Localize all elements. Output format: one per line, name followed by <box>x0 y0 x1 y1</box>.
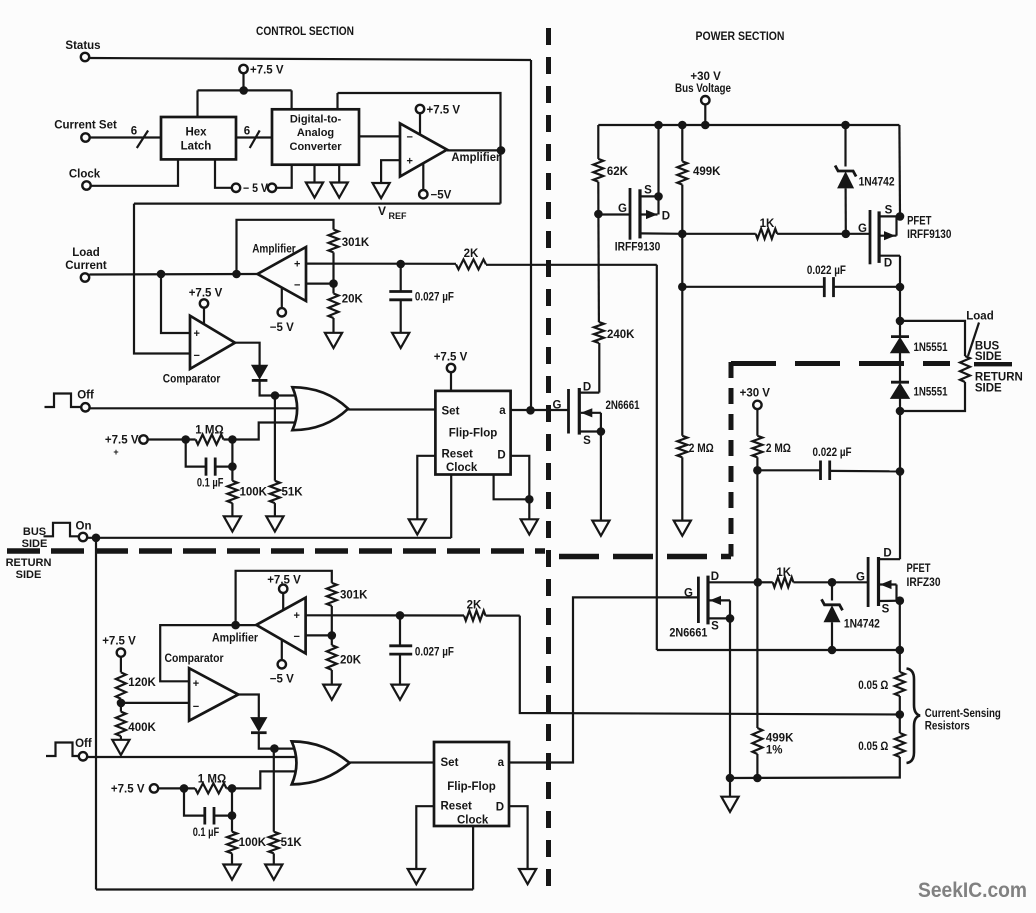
svg-text:Digital-to-: Digital-to- <box>290 114 342 126</box>
wire feedback top to amp1 output <box>338 93 501 150</box>
wire hex latch -5V stub <box>215 159 232 187</box>
svg-text:0.1 µF: 0.1 µF <box>193 827 220 839</box>
svg-text:POWER SECTION: POWER SECTION <box>696 29 785 43</box>
wire On line <box>87 537 451 539</box>
svg-text:120K: 120K <box>128 677 156 689</box>
wire 1M2 to OR2 bottom input <box>227 771 297 788</box>
wire comparator1 output <box>235 343 260 366</box>
wire Q5 source lead <box>879 600 900 602</box>
comparator U8 lower <box>189 668 238 721</box>
ground Q4 source <box>721 797 738 812</box>
wire +7.5V FF1 stub <box>450 372 452 391</box>
lower feedback box wire <box>236 571 332 625</box>
wire FF2 a to gate riser <box>509 597 698 762</box>
diode 1N5551 lower <box>891 381 909 384</box>
svg-text:1K: 1K <box>776 567 791 579</box>
wire to Q5 gate <box>832 581 868 583</box>
node 0.022 line left <box>678 283 687 292</box>
wire OR1 top input <box>275 394 297 396</box>
wire Q1 source to ground <box>600 432 602 521</box>
wire Q1 240K vertical <box>598 343 600 393</box>
svg-text:PFET: PFET <box>907 216 931 228</box>
svg-text:D: D <box>496 802 504 814</box>
svg-text:Off: Off <box>75 738 92 750</box>
dashed inner boundary vertical <box>729 362 734 557</box>
node Q3 source <box>896 212 905 221</box>
svg-text:1N4742: 1N4742 <box>844 619 880 631</box>
wire OR2 top input <box>274 747 296 749</box>
resistor 2Mohm left <box>681 287 683 436</box>
wire amp2 minus input <box>306 283 334 285</box>
svg-text:On: On <box>76 521 92 533</box>
wire Q2 drain lead <box>640 232 682 235</box>
pulse symbol On <box>44 523 80 537</box>
svg-text:Set: Set <box>441 757 459 769</box>
svg-text:SIDE: SIDE <box>22 538 48 550</box>
svg-text:1%: 1% <box>766 745 783 757</box>
dashed divider horizontal BUS/RETURN left <box>7 548 545 554</box>
node 100K2 top <box>228 811 237 820</box>
svg-text:SIDE: SIDE <box>975 383 1002 395</box>
wire Q3 drain down <box>899 256 901 321</box>
node Q4 source <box>726 614 735 623</box>
wire Q5 source to sense node <box>899 601 901 650</box>
wire 1M right to 100K <box>231 440 233 481</box>
wire to Q3 gate <box>846 233 870 235</box>
flip-flop U9 <box>434 742 509 826</box>
wire 0.05 bottom <box>730 757 900 778</box>
wire 1K2 to zener node <box>793 581 832 583</box>
op-amp U4 Amplifier (left-pointing) <box>258 247 307 301</box>
wire 499K1pc to bottom <box>756 754 758 778</box>
OR gate 2 <box>292 741 350 784</box>
svg-text:0.05 Ω: 0.05 Ω <box>858 741 888 753</box>
wire 100K to ground <box>231 503 233 516</box>
wire +7.5V to bus <box>242 73 244 90</box>
svg-text:1N5551: 1N5551 <box>914 387 948 399</box>
svg-text:+: + <box>294 259 300 271</box>
terminal -5V amp3 <box>278 660 286 668</box>
svg-text:Reset: Reset <box>442 448 473 460</box>
node drain 1K <box>678 230 687 239</box>
svg-text:51K: 51K <box>282 487 304 499</box>
wire +7.5V comparator1 stub <box>203 308 205 325</box>
resistor 51K upper <box>270 481 280 503</box>
svg-text:Flip-Flop: Flip-Flop <box>449 428 498 440</box>
resistor 51K lower <box>269 832 279 854</box>
DAC box U2 Digital-to-Analog Converter <box>272 109 359 164</box>
wire Q4 body down to source <box>729 600 731 618</box>
svg-text:Clock: Clock <box>69 169 101 181</box>
resistor 499K <box>681 125 683 161</box>
svg-text:Off: Off <box>77 390 94 402</box>
wire to 1M <box>148 438 196 440</box>
svg-text:G: G <box>856 572 865 584</box>
transistor Q4 channel plate <box>706 576 709 625</box>
svg-text:Comparator: Comparator <box>163 374 221 386</box>
dashed divider horizontal power section <box>559 554 731 560</box>
node FF1 D loop <box>525 495 534 504</box>
node FF1 a / status <box>526 406 535 415</box>
wire gate lead Q2 <box>598 213 630 215</box>
svg-text:Current: Current <box>65 260 107 272</box>
svg-text:0.022 µF: 0.022 µF <box>813 447 852 459</box>
svg-text:1N4742: 1N4742 <box>859 177 895 189</box>
wire 1M to OR bottom input <box>224 423 298 440</box>
svg-text:G: G <box>684 587 693 599</box>
svg-text:PFET: PFET <box>907 563 931 575</box>
node zener2 bottom <box>828 646 837 655</box>
svg-text:Bus Voltage: Bus Voltage <box>675 83 731 95</box>
wire 2M left branch <box>681 234 683 287</box>
node +7.5V bus junction <box>239 86 248 95</box>
svg-text:SIDE: SIDE <box>16 569 42 581</box>
Q5 body arrow lead <box>880 583 897 585</box>
wire FF1 a output to FET gate <box>511 409 569 411</box>
svg-text:100K: 100K <box>239 837 267 849</box>
wire bus left corner down <box>597 125 599 159</box>
node bus S branch <box>654 121 663 130</box>
wire down to IRFZ30 drain <box>899 471 901 559</box>
svg-text:301K: 301K <box>342 237 370 249</box>
wire amp3 plus input line <box>306 614 464 616</box>
svg-text:BUS: BUS <box>23 526 46 538</box>
resistor 100K lower <box>227 832 237 854</box>
wire Q4 source to bottom <box>729 618 731 778</box>
svg-text:−5V: −5V <box>431 190 452 202</box>
wire zener to 1K line <box>844 188 846 233</box>
svg-text:62K: 62K <box>607 166 629 178</box>
svg-text:−: − <box>294 631 300 643</box>
wire bus to Q2 source <box>657 125 659 196</box>
ground 51K lower <box>265 865 282 880</box>
wire VREF down to comparator minus <box>134 204 190 354</box>
wire divider to comparator2 minus <box>121 702 189 704</box>
wire to 0.05 first <box>899 650 901 672</box>
svg-text:+7.5 V: +7.5 V <box>105 435 139 447</box>
resistor 20K lower <box>331 635 333 645</box>
wire Q3 source lead <box>879 215 900 217</box>
wire 62K to gate node <box>597 182 599 214</box>
terminal +30V bus <box>701 96 709 104</box>
flip-flop U6 <box>435 391 510 475</box>
svg-text:G: G <box>618 203 627 215</box>
node 0.022#2 left <box>753 466 762 475</box>
wire +7.5V bus <box>198 89 292 91</box>
svg-text:S: S <box>885 205 893 217</box>
ground 20K upper <box>325 333 342 348</box>
capacitor 0.022uF upper wire <box>682 286 824 288</box>
terminal -5V amp1 <box>419 190 427 198</box>
resistor 20K upper <box>332 284 334 294</box>
svg-text:−: − <box>193 701 199 713</box>
svg-text:+7.5 V: +7.5 V <box>250 65 284 77</box>
svg-text:Amplifier: Amplifier <box>451 152 501 164</box>
Q2 body arrow lead <box>640 213 658 215</box>
svg-text:S: S <box>644 185 652 197</box>
wire bus to Hex Latch <box>196 90 198 117</box>
wire 51K2 branch <box>273 749 275 832</box>
wire 1N5551 to node <box>899 398 901 411</box>
wire 20K to ground <box>332 318 334 333</box>
wire Q1 drain lead <box>579 392 599 394</box>
svg-text:51K: 51K <box>281 837 303 849</box>
resistor 400K <box>116 712 126 736</box>
wire +30V bus rail <box>598 124 899 126</box>
transistor Q1 channel plate <box>578 388 581 435</box>
node 1M left <box>181 435 190 444</box>
node bottom right <box>753 774 762 783</box>
wire diode2 to OR2 node <box>259 733 275 749</box>
svg-text:Analog: Analog <box>297 127 334 139</box>
wire 20K2 to ground <box>331 670 333 685</box>
node Q5 source <box>896 596 905 605</box>
node OR2 top input <box>270 744 279 753</box>
wire feedback box amp2 <box>237 220 334 274</box>
svg-text:1K: 1K <box>760 218 775 230</box>
svg-text:S: S <box>882 604 890 616</box>
svg-text:−: − <box>407 132 413 144</box>
svg-text:D: D <box>883 548 891 560</box>
node load bottom <box>896 407 905 416</box>
resistor 62K <box>593 159 603 182</box>
wire OR1 output to FF1 Set <box>348 408 435 410</box>
svg-text:1 MΩ: 1 MΩ <box>195 425 223 437</box>
wire 51K to ground <box>274 503 276 516</box>
svg-text:D: D <box>711 571 719 583</box>
diode comparator1 <box>252 365 268 379</box>
load pointer line <box>968 323 979 357</box>
node load current branch <box>157 270 166 279</box>
wire to mid node <box>899 696 901 715</box>
resistor 1 Mohm lower <box>195 783 226 793</box>
svg-text:−5 V: −5 V <box>270 322 294 334</box>
node 0.022#2 right <box>896 467 905 476</box>
svg-text:−5 V: −5 V <box>270 674 294 686</box>
svg-text:+30 V: +30 V <box>690 71 721 83</box>
diode comparator2 <box>251 718 267 732</box>
transistor Q1 2N6661 gate plate <box>567 389 570 434</box>
zener 1N4742 lower <box>831 582 833 600</box>
svg-text:− 5 V: − 5 V <box>243 183 268 195</box>
svg-text:499K: 499K <box>693 166 721 178</box>
node zener bottom / gate Q3 <box>842 230 851 239</box>
svg-text:0.022 µF: 0.022 µF <box>807 265 846 277</box>
wire FF1 D to ground <box>511 456 530 520</box>
svg-text:400K: 400K <box>128 722 156 734</box>
wire Q4 source lead <box>708 617 730 619</box>
wire DAC feedback stub <box>336 93 338 109</box>
svg-text:Resistors: Resistors <box>925 721 970 733</box>
svg-text:−: − <box>294 280 300 292</box>
wire amp3 output to feedback <box>236 624 257 626</box>
svg-text:Amplifier: Amplifier <box>252 243 296 255</box>
svg-text:+7.5 V: +7.5 V <box>102 636 136 648</box>
wire OR2 output to FF2 Set <box>350 761 434 763</box>
svg-text:IRFF9130: IRFF9130 <box>907 229 951 241</box>
ground 0.027 lower <box>391 685 408 700</box>
capacitor 0.1uF upper <box>186 440 206 467</box>
ground 100K upper <box>224 516 241 531</box>
node 1M2 left <box>180 784 189 793</box>
svg-text:+: + <box>407 156 413 168</box>
node amp2 minus <box>329 279 338 288</box>
svg-text:+: + <box>113 447 118 457</box>
wire status to corner <box>89 58 531 60</box>
transistor Q2 channel plate <box>638 189 641 238</box>
ground DAC 2 <box>331 183 348 198</box>
ground FF1 reset <box>409 519 426 534</box>
wire current sense line to control <box>520 616 900 715</box>
resistor 0.05 ohm lower <box>899 715 901 734</box>
wire Q2 source lead <box>640 195 659 197</box>
transistor Q3 channel plate <box>877 211 880 263</box>
svg-text:Status: Status <box>65 40 100 52</box>
svg-text:+7.5 V: +7.5 V <box>111 783 145 795</box>
svg-text:Reset: Reset <box>441 801 472 813</box>
svg-text:Load: Load <box>966 311 993 323</box>
wire FF1 clock to On line <box>450 475 452 539</box>
wire Q1 body to source <box>600 413 602 432</box>
svg-text:RETURN: RETURN <box>6 557 52 569</box>
terminal -5V amp2 <box>278 308 286 316</box>
transistor Q4 2N6661 gate plate <box>697 577 700 623</box>
wire 2M2 to node <box>756 457 758 470</box>
node load top <box>896 317 905 326</box>
resistor 240K <box>594 322 604 343</box>
resistor 1 Mohm upper <box>196 435 224 445</box>
wire amp1 plus to ground <box>381 160 400 183</box>
svg-text:2K: 2K <box>467 600 482 612</box>
wire Off2 line <box>87 756 298 758</box>
node sense mid <box>896 710 905 719</box>
ground 2M left <box>674 521 691 536</box>
node amp3 minus <box>328 631 337 640</box>
wire +30 branch down <box>756 470 758 582</box>
node 0.027#2 <box>396 611 405 620</box>
wire status vertical to FF1 a node <box>530 60 532 410</box>
svg-text:301K: 301K <box>340 590 368 602</box>
svg-text:+7.5 V: +7.5 V <box>189 288 223 300</box>
wire amp3 minus input <box>306 634 332 636</box>
svg-text:+7.5 V: +7.5 V <box>427 105 461 117</box>
ground 0.027uF upper <box>392 333 409 348</box>
ground FF2 reset <box>408 869 425 884</box>
wire 2K2 to sense riser <box>486 614 520 616</box>
node bus zener <box>841 121 850 130</box>
wire to 1M2 <box>158 787 195 789</box>
ground 400K <box>112 740 129 755</box>
wire bus to DAC <box>291 90 293 109</box>
node 0.027uF upper <box>396 260 405 269</box>
svg-text:Load: Load <box>72 247 99 259</box>
capacitor 0.027uF upper <box>400 264 402 292</box>
node sense top right <box>896 646 905 655</box>
node 120K 400K <box>117 699 126 708</box>
terminal +30V 2 <box>753 401 761 409</box>
node 62K gate <box>594 210 603 219</box>
resistor 301K upper <box>329 230 339 253</box>
wire FF2 clock vertical <box>472 826 474 890</box>
svg-text:2K: 2K <box>464 248 479 260</box>
ground stub DAC 2 <box>338 165 340 183</box>
node Q2 source <box>654 192 663 201</box>
wire -5V to DAC <box>276 165 291 188</box>
svg-text:S: S <box>583 435 591 447</box>
svg-text:−: − <box>194 350 200 362</box>
wire branch to comparator plus <box>161 274 190 333</box>
zener 1N4742 upper <box>844 125 846 167</box>
svg-text:6: 6 <box>244 126 250 138</box>
wire -5V amp2 stub <box>281 288 283 309</box>
wire On return vertical <box>95 538 97 890</box>
Q3 body arrow lead <box>879 235 896 237</box>
svg-text:+: + <box>193 678 199 690</box>
node amp1 output VREF <box>497 146 506 155</box>
wire between 1N5551s <box>899 353 901 382</box>
wire sense line down power <box>656 265 658 650</box>
svg-text:100K: 100K <box>240 487 268 499</box>
node bus +30 stub <box>701 121 710 130</box>
wire amp3 out to comparator2 plus <box>160 625 235 681</box>
wire clock to hex latch <box>91 159 178 185</box>
resistor 301K lower <box>327 583 337 606</box>
wire FF2 D to ground <box>509 806 528 869</box>
wire current set to hex latch <box>90 136 161 138</box>
svg-text:D: D <box>662 211 670 223</box>
node 1M right <box>228 435 237 444</box>
ground stub DAC 1 <box>313 165 315 183</box>
resistor 2Mohm right <box>752 436 762 458</box>
node zener2 top <box>828 578 837 587</box>
wire 301K2 down to minus node <box>331 606 333 636</box>
wire DAC out to amp1 minus <box>359 135 400 137</box>
Q4 body arrow lead <box>710 599 731 601</box>
resistor 0.05 ohm upper <box>895 672 905 696</box>
wire 400K to ground <box>120 736 122 740</box>
resistor Load <box>960 356 970 382</box>
node bus 499K <box>678 121 687 130</box>
ground amp1 plus <box>373 183 390 198</box>
resistor 2K upper <box>456 259 486 269</box>
wire -5V amp1 stub <box>422 163 424 190</box>
ground DAC 1 <box>306 183 323 198</box>
svg-text:D: D <box>884 257 892 269</box>
wire bus right corner down <box>898 125 901 216</box>
wire diode to OR node <box>260 380 275 395</box>
svg-text:D: D <box>583 382 591 394</box>
resistor 499K 1% <box>752 728 762 754</box>
node On branch <box>92 534 101 543</box>
svg-text:Hex: Hex <box>185 127 207 139</box>
bus slash 6 right <box>236 136 272 138</box>
hex latch U1 <box>161 117 236 159</box>
svg-text:Current-Sensing: Current-Sensing <box>925 708 1001 720</box>
node 1M2 right <box>228 784 237 793</box>
wire amp2 plus input line <box>306 263 456 265</box>
node bottom left <box>726 774 735 783</box>
node amp2 output <box>232 270 241 279</box>
wire load current line <box>89 273 257 276</box>
op-amp U7 Amplifier lower <box>256 598 305 654</box>
svg-text:Clock: Clock <box>446 462 478 474</box>
svg-text:Clock: Clock <box>457 815 489 827</box>
node Q1 source <box>597 427 606 436</box>
svg-text:1 MΩ: 1 MΩ <box>198 774 226 786</box>
svg-text:499K: 499K <box>766 733 794 745</box>
wire 1K to zener node <box>777 233 846 235</box>
transistor Q5 channel plate <box>877 557 880 606</box>
